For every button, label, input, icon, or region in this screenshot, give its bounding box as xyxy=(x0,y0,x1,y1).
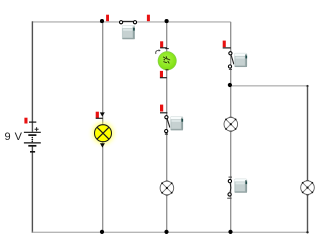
node A junction top of lamp branch xyxy=(100,19,104,23)
switch S4 bottom contact xyxy=(228,193,231,196)
wire left vertical (battery branch bottom) xyxy=(31,146,33,233)
wire branch right switches vertical xyxy=(230,22,232,232)
switch S4 bottom terminal tick xyxy=(227,197,231,199)
voltage bar base / switch S3 top terminal xyxy=(223,47,231,49)
node B junction top of motor branch xyxy=(165,19,169,23)
switch S3 bottom contact xyxy=(228,65,231,68)
switch S2 open lever xyxy=(167,119,170,128)
battery B1 bottom terminal tick xyxy=(30,151,35,153)
switch S3 top contact xyxy=(229,52,232,55)
voltage bar above switch S2 xyxy=(160,105,163,112)
voltage bar base at motor M1 top xyxy=(160,47,167,49)
switch S1 left contact xyxy=(120,21,123,24)
voltage bar base at lamp L1 top xyxy=(96,117,103,119)
push button actuator of S4 xyxy=(234,179,247,193)
push button actuator of S2 xyxy=(170,116,183,130)
switch S4 top terminal tick xyxy=(229,176,233,178)
switch S3 open lever xyxy=(231,55,234,64)
wire middle horizontal to right branch xyxy=(231,85,308,87)
node C junction to right branch xyxy=(228,83,232,87)
corner node at right top xyxy=(306,85,308,87)
wire left vertical (battery branch top) xyxy=(31,21,33,132)
battery B1 cell1 long plate xyxy=(24,131,41,133)
switch S1 closed lever xyxy=(123,20,133,22)
wire branch lamp L1 vertical xyxy=(102,22,104,232)
motor M1 rotation arrow xyxy=(156,50,159,54)
lamp L4 terminal ticks xyxy=(306,181,309,195)
switch S3 bottom terminal tick xyxy=(229,68,232,70)
voltage bar above switch S3 xyxy=(223,41,226,48)
battery B1 cell2 short plate xyxy=(28,145,36,147)
switch S1 right contact xyxy=(133,21,136,24)
switch S2 bottom contact xyxy=(165,130,168,133)
wire top horizontal xyxy=(32,21,230,23)
wire right vertical xyxy=(307,86,309,233)
motor M1 top terminal tick xyxy=(165,48,169,50)
motor M1 spinning symbol xyxy=(163,57,169,64)
lamp L2 unlit xyxy=(160,181,174,195)
voltage bar at lamp L1 top terminal xyxy=(96,112,99,118)
svg-text:9 V: 9 V xyxy=(5,131,23,143)
battery B1 dotted link xyxy=(32,137,34,143)
node D junction bottom of lamp branch xyxy=(100,230,104,234)
current arrow below lamp L1 xyxy=(100,143,105,147)
voltage bar right of switch S1 xyxy=(147,15,150,22)
switch S4 closed lever xyxy=(229,183,232,192)
battery B1 top terminal tick xyxy=(29,121,36,123)
motor M1 body xyxy=(158,52,176,70)
battery B1 polarity plus sign xyxy=(35,127,39,131)
voltage bar base at motor M1 bottom xyxy=(160,77,167,79)
current arrow above lamp L1 xyxy=(100,112,105,116)
battery B1 cell1 short plate xyxy=(28,134,36,136)
switch S2 top contact xyxy=(165,116,168,119)
wire bottom horizontal xyxy=(32,231,307,233)
lamp L1 lit body xyxy=(95,125,112,142)
lamp L3 terminal ticks xyxy=(229,117,232,131)
voltage bar base / switch S2 top terminal xyxy=(160,112,167,114)
lamp L1 glow xyxy=(92,122,114,144)
motor M1 bottom terminal tick xyxy=(166,69,169,71)
voltage bar at motor M1 top terminal xyxy=(160,41,163,47)
battery B1 cell2 long plate xyxy=(24,142,41,144)
lamp L1 cross xyxy=(97,127,109,139)
push button actuator of S3 xyxy=(234,53,247,67)
voltage bar at battery positive terminal xyxy=(24,118,27,124)
node F junction bottom of switch branch xyxy=(228,230,232,234)
switch S4 top contact xyxy=(228,179,231,182)
node E junction bottom of motor branch xyxy=(164,230,168,234)
push button actuator of S1 xyxy=(122,25,135,39)
wire branch motor vertical xyxy=(166,22,168,232)
switch S2 bottom terminal tick xyxy=(165,133,168,135)
lamp L2 terminal ticks xyxy=(166,181,169,195)
lamp L4 unlit xyxy=(301,181,315,195)
voltage bar at motor M1 bottom terminal xyxy=(160,71,163,78)
lamp L3 unlit xyxy=(224,117,238,131)
voltage bar right of node A xyxy=(106,15,109,22)
corner node at right bottom xyxy=(306,231,308,233)
